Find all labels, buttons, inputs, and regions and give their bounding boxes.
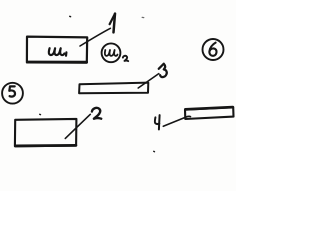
ink speck top left — [69, 15, 72, 17]
circled coil label sh2 — [102, 43, 129, 62]
circled label 5 — [2, 83, 23, 104]
leader line to label 1 — [80, 28, 110, 46]
block 2 — [15, 119, 77, 146]
block W1 (rectangle with coil label sh1) — [27, 37, 87, 63]
leader line to label 3 — [138, 74, 159, 88]
leader line to label 2 — [65, 114, 90, 138]
circled label 6 — [203, 39, 224, 60]
ink speck bottom — [153, 150, 156, 152]
label 4 — [155, 115, 160, 129]
leader line to label 4 — [163, 116, 190, 126]
coil label sh1 inside block W1 — [49, 48, 67, 56]
thin block 3 — [79, 83, 148, 94]
label 1 — [110, 14, 115, 33]
label 2 — [92, 108, 101, 119]
thin block 4 — [185, 107, 234, 119]
ink speck top center — [142, 16, 144, 18]
ink speck above block 2 — [39, 113, 42, 115]
label 3 — [159, 64, 167, 77]
